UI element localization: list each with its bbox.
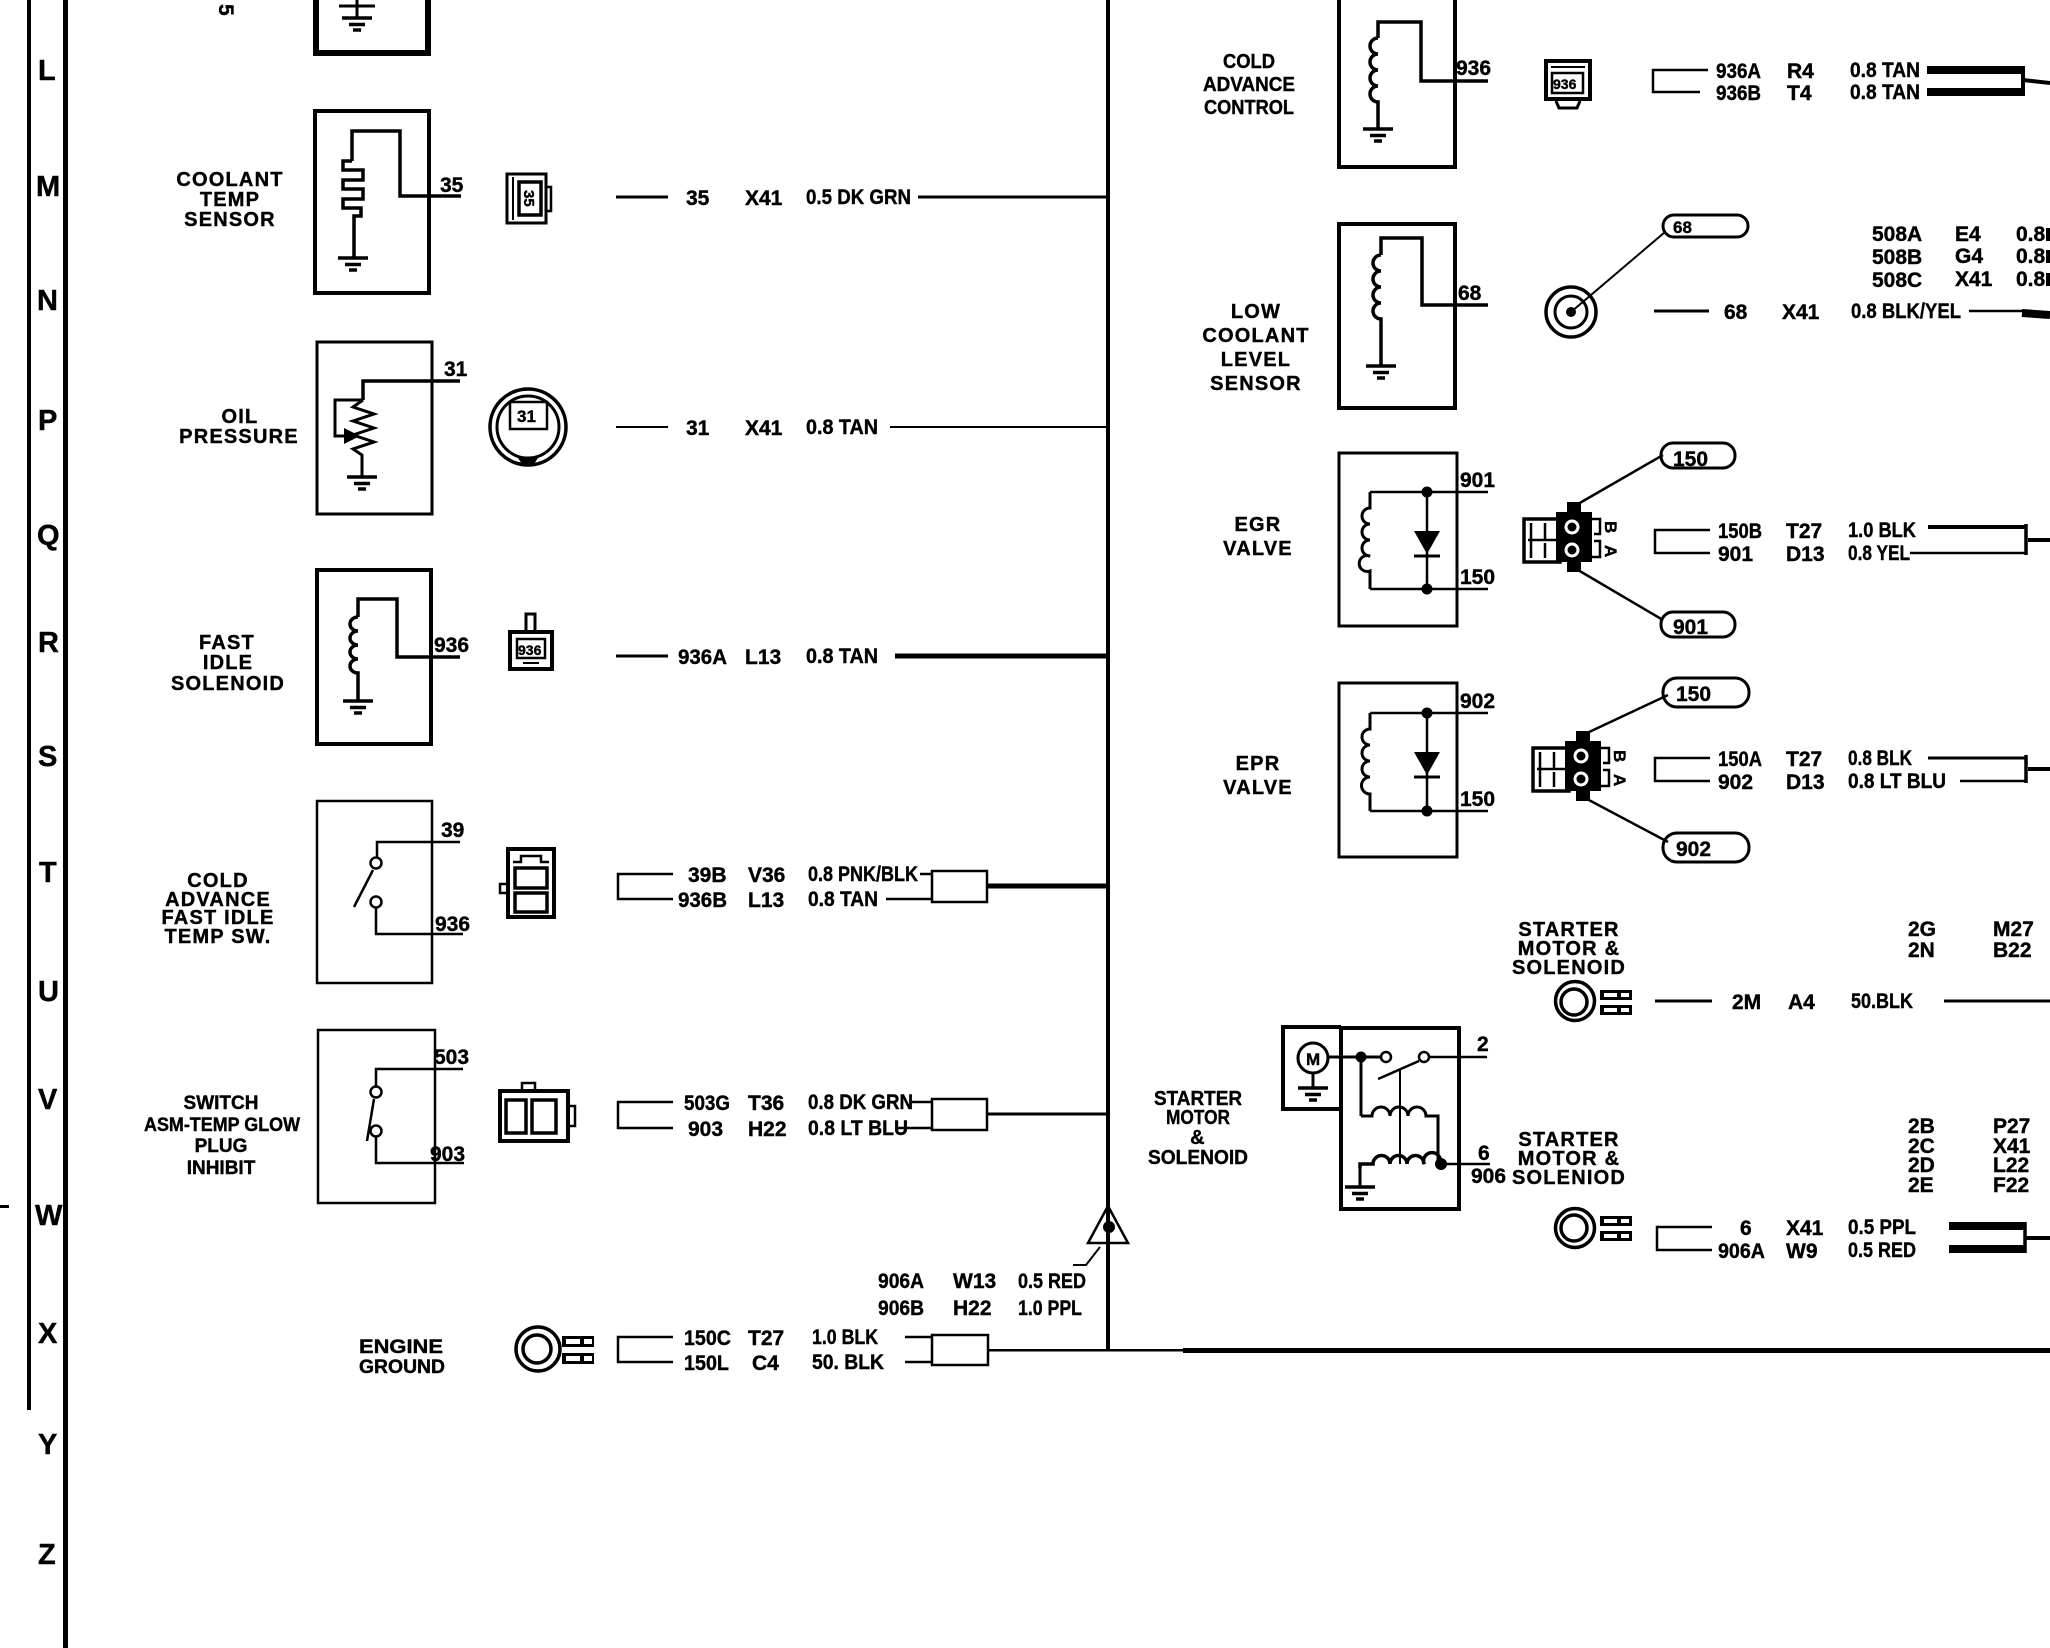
- svg-text:R4: R4: [1787, 60, 1814, 83]
- component box oil pressure: [317, 342, 432, 514]
- svg-text:SWITCH: SWITCH: [184, 1093, 259, 1114]
- wire merged exit to edge: [2023, 80, 2050, 83]
- svg-text:W: W: [35, 1200, 63, 1232]
- svg-text:508A: 508A: [1872, 223, 1922, 246]
- svg-text:PRESSURE: PRESSURE: [179, 426, 299, 448]
- EPR top rail to pin 902: [1370, 712, 1488, 715]
- component box EPR valve: [1339, 683, 1457, 857]
- wire 903 lead: [898, 1127, 932, 1130]
- ring terminal engine ground ring: [516, 1327, 560, 1371]
- svg-text:936B: 936B: [1716, 82, 1761, 105]
- EPR connector bottom tab: [1576, 791, 1590, 801]
- svg-text:SENSOR: SENSOR: [184, 209, 276, 231]
- svg-text:0.8 DK GRN: 0.8 DK GRN: [808, 1091, 913, 1114]
- svg-text:508B: 508B: [1872, 246, 1922, 269]
- wire 6 highlighted run: [1949, 1222, 2024, 1230]
- EPR connector round half: [1565, 741, 1601, 791]
- svg-text:906A: 906A: [878, 1270, 924, 1293]
- svg-text:X: X: [38, 1318, 58, 1350]
- wiper arrowhead: [344, 428, 360, 444]
- wiper arm with arrow: [335, 400, 363, 436]
- ring terminal 6 crimp: [1600, 1216, 1632, 1241]
- wire 906A highlighted run: [1949, 1245, 2024, 1253]
- svg-text:R: R: [38, 627, 59, 659]
- switch blade: [354, 870, 373, 907]
- ground oil pressure: [347, 477, 377, 489]
- svg-text:50.BLK: 50.BLK: [1851, 990, 1913, 1013]
- svg-text:0.5 PPL: 0.5 PPL: [1848, 1216, 1916, 1239]
- splice box 503G/903: [932, 1099, 987, 1130]
- svg-text:0.8 BLK: 0.8 BLK: [1848, 747, 1912, 770]
- EGR leader to pill 150: [1578, 455, 1663, 504]
- svg-text:B22: B22: [1993, 939, 2032, 962]
- grid border line left outer: [27, 0, 31, 1410]
- svg-text:SOLENOID: SOLENOID: [1512, 957, 1626, 979]
- ref list cut text sliver row2: [2046, 250, 2050, 263]
- svg-text:906B: 906B: [878, 1297, 924, 1320]
- EPR connector top tab: [1576, 731, 1590, 741]
- svg-text:0.8 BLK/YEL: 0.8 BLK/YEL: [1851, 300, 1961, 323]
- svg-text:150: 150: [1676, 683, 1711, 706]
- main bus horizontal wire thin part: [988, 1349, 1184, 1352]
- svg-text:M: M: [36, 171, 60, 203]
- svg-text:936: 936: [518, 642, 542, 658]
- wire from sender to pin 31: [363, 381, 460, 400]
- svg-text:2: 2: [1477, 1033, 1489, 1056]
- wire to pin 903: [376, 1137, 464, 1163]
- connector C936b top slot: [1551, 66, 1585, 68]
- svg-text:936A: 936A: [1716, 60, 1761, 83]
- svg-text:936: 936: [1553, 76, 1577, 92]
- ground coolant temp sensor: [338, 258, 368, 270]
- svg-text:SOLENIOD: SOLENIOD: [1512, 1167, 1626, 1189]
- svg-text:902: 902: [1676, 838, 1711, 861]
- component box fast idle solenoid: [317, 570, 431, 744]
- wire merge bracket 936A/936B: [2021, 66, 2025, 96]
- wire from coil to pin 936: [358, 599, 460, 657]
- ref list cut text sliver row3: [2046, 273, 2050, 286]
- wire 503G lead: [912, 1101, 932, 1104]
- svg-text:P: P: [38, 405, 57, 437]
- bracket 936A/936B: [1653, 70, 1708, 92]
- splice box 150C/150L: [932, 1335, 988, 1365]
- connector C39 top notch: [513, 856, 549, 862]
- svg-text:0.8 TAN: 0.8 TAN: [1850, 81, 1920, 104]
- svg-text:L: L: [38, 55, 56, 87]
- solenoid coil cold advance: [1370, 38, 1378, 128]
- EGR diode bar: [1414, 555, 1440, 558]
- svg-text:D13: D13: [1786, 543, 1825, 566]
- wire to pin 936: [376, 908, 463, 934]
- wire 2M run: [1944, 1000, 2050, 1003]
- junction dot coil2: [1435, 1158, 1447, 1170]
- svg-text:31: 31: [517, 407, 536, 426]
- svg-text:936: 936: [435, 913, 470, 936]
- svg-text:E4: E4: [1955, 223, 1981, 246]
- ring terminal 6 hole: [1561, 1215, 1587, 1241]
- svg-text:68: 68: [1724, 301, 1748, 324]
- pill 902 (EPR): [1663, 833, 1749, 862]
- wire stub row 31: [616, 426, 668, 428]
- svg-text:V: V: [38, 1084, 58, 1116]
- bracket 150C/150L: [618, 1337, 673, 1362]
- svg-text:X41: X41: [1955, 268, 1993, 291]
- svg-text:L13: L13: [745, 646, 781, 669]
- wire 936B lead: [886, 898, 932, 901]
- svg-text:68: 68: [1458, 282, 1482, 305]
- svg-text:V36: V36: [748, 864, 785, 887]
- svg-text:SOLENOID: SOLENOID: [171, 673, 285, 695]
- solenoid contact right: [1419, 1052, 1429, 1062]
- svg-text:50. BLK: 50. BLK: [812, 1351, 884, 1374]
- connector C35 inner cavity: [519, 182, 541, 215]
- svg-text:VALVE: VALVE: [1223, 777, 1293, 799]
- ring terminal engine ground hole: [523, 1335, 551, 1363]
- wire from resistor to pin 35: [352, 131, 461, 196]
- wire 68 highlighted end: [2022, 313, 2050, 315]
- connector C936 top tab: [526, 614, 535, 632]
- left edge tick: [0, 1205, 9, 1208]
- svg-text:&: &: [1190, 1127, 1206, 1149]
- svg-text:T: T: [39, 857, 57, 889]
- svg-text:31: 31: [686, 417, 710, 440]
- svg-text:0.8: 0.8: [2016, 245, 2046, 268]
- EGR bottom rail to pin 150: [1370, 588, 1488, 591]
- connector C936 body: [510, 632, 552, 669]
- svg-text:X41: X41: [745, 417, 783, 440]
- svg-text:Q: Q: [37, 520, 60, 552]
- svg-text:S: S: [38, 741, 57, 773]
- svg-text:5: 5: [214, 4, 237, 16]
- svg-text:150B: 150B: [1718, 520, 1762, 543]
- EGR connector bottom tab: [1567, 562, 1581, 572]
- svg-text:508C: 508C: [1872, 269, 1922, 292]
- EPR leader to pill 150: [1587, 695, 1668, 733]
- svg-text:INHIBIT: INHIBIT: [187, 1158, 256, 1179]
- svg-text:150C: 150C: [684, 1327, 731, 1350]
- svg-text:A: A: [1610, 774, 1629, 786]
- component box EGR valve: [1339, 453, 1457, 626]
- wire to pin 39: [377, 842, 460, 857]
- svg-text:ASM-TEMP GLOW: ASM-TEMP GLOW: [144, 1115, 300, 1136]
- ground fast idle solenoid: [343, 701, 373, 713]
- EGR connector pin B hole: [1566, 521, 1578, 533]
- svg-text:B: B: [1601, 521, 1620, 533]
- EPR junction dot bottom: [1422, 806, 1433, 817]
- pill 68: [1663, 215, 1748, 237]
- coil2 ground stem: [1359, 1166, 1362, 1186]
- svg-text:906A: 906A: [1718, 1240, 1765, 1263]
- ground in top box: [339, 0, 375, 18]
- svg-text:COLD: COLD: [1223, 51, 1275, 73]
- switch contact top (503): [371, 1087, 382, 1098]
- connector C503 right cavity: [532, 1100, 556, 1133]
- splice leader line: [1073, 1247, 1100, 1265]
- solenoid blade: [1378, 1061, 1419, 1079]
- EPR connector pin B hole: [1575, 750, 1587, 762]
- svg-text:902: 902: [1718, 771, 1753, 794]
- EGR connector pin A hole: [1566, 544, 1578, 556]
- component box cold advance control: [1339, 0, 1455, 167]
- main bus horizontal wire thick part: [1183, 1348, 2050, 1353]
- sensor coil low coolant: [1373, 255, 1381, 365]
- svg-text:X41: X41: [1782, 301, 1820, 324]
- svg-text:2N: 2N: [1908, 939, 1935, 962]
- svg-text:150: 150: [1460, 566, 1495, 589]
- svg-text:L13: L13: [748, 889, 784, 912]
- svg-text:EGR: EGR: [1235, 514, 1282, 536]
- svg-text:PLUG: PLUG: [195, 1136, 248, 1157]
- EGR connector right latch: [1592, 519, 1600, 557]
- solenoid coil 1: [1361, 1107, 1438, 1164]
- starter motor sub-box: [1283, 1027, 1341, 1109]
- svg-text:A: A: [1601, 545, 1620, 557]
- connector C39 upper cavity: [515, 868, 547, 888]
- EGR junction dot bottom: [1422, 584, 1433, 595]
- switch contact bottom (936): [371, 897, 382, 908]
- svg-text:FAST: FAST: [199, 632, 255, 654]
- svg-text:902: 902: [1460, 690, 1495, 713]
- svg-text:D13: D13: [1786, 771, 1825, 794]
- svg-text:150A: 150A: [1718, 748, 1762, 771]
- svg-text:0.5 RED: 0.5 RED: [1018, 1270, 1086, 1293]
- splice box 39B/936B: [932, 871, 987, 902]
- connector C35 right tab: [546, 187, 551, 211]
- svg-text:CONTROL: CONTROL: [1204, 97, 1294, 119]
- EGR junction dot top: [1422, 487, 1433, 498]
- wire merge bracket 150A/902: [2024, 755, 2028, 783]
- wire stub row 35: [616, 196, 668, 199]
- wire 31 to bus: [890, 426, 1108, 428]
- svg-text:150L: 150L: [684, 1352, 729, 1375]
- svg-text:T27: T27: [748, 1327, 784, 1350]
- probe leader to pill 68: [1571, 232, 1665, 312]
- grid border line left inner: [63, 0, 68, 1648]
- svg-text:0.8 LT BLU: 0.8 LT BLU: [1848, 770, 1946, 793]
- starter main box: [1341, 1028, 1459, 1209]
- svg-text:1.0 BLK: 1.0 BLK: [812, 1326, 878, 1349]
- svg-text:503: 503: [434, 1046, 469, 1069]
- solenoid contact left: [1381, 1052, 1391, 1062]
- component box low coolant level sensor: [1339, 224, 1455, 408]
- svg-text:SOLENOID: SOLENOID: [1148, 1147, 1248, 1169]
- svg-text:0.8 TAN: 0.8 TAN: [806, 416, 878, 439]
- EGR connector round half: [1556, 512, 1592, 562]
- solenoid coil fast idle: [350, 617, 358, 700]
- probe icon center dot: [1566, 307, 1576, 317]
- svg-text:B: B: [1610, 750, 1629, 762]
- EPR connector pin A hole: [1575, 773, 1587, 785]
- EPR diode line: [1426, 713, 1429, 811]
- resistor element (square zigzag): [343, 161, 363, 257]
- component box cold advance temp switch: [317, 801, 432, 983]
- ref list cut text sliver row1: [2046, 228, 2050, 241]
- EPR connector right latch: [1601, 748, 1609, 786]
- svg-text:68: 68: [1673, 218, 1692, 237]
- svg-text:2E: 2E: [1908, 1174, 1934, 1197]
- EPR connector grid half: [1533, 748, 1569, 791]
- svg-text:M: M: [1306, 1050, 1320, 1069]
- svg-text:0.8 TAN: 0.8 TAN: [1850, 59, 1920, 82]
- svg-text:35: 35: [686, 187, 710, 210]
- svg-text:TEMP SW.: TEMP SW.: [164, 926, 271, 948]
- EPR diode triangle: [1414, 752, 1440, 775]
- main bus vertical wire: [1106, 0, 1110, 1350]
- bracket 503G/903: [618, 1102, 673, 1128]
- svg-text:H22: H22: [953, 1297, 992, 1320]
- pill 901 (EGR): [1661, 612, 1735, 637]
- wire to pin 503: [376, 1069, 463, 1086]
- svg-text:0.8 TAN: 0.8 TAN: [808, 888, 878, 911]
- EGR coil: [1359, 492, 1370, 589]
- connector C936 inner box: [517, 639, 545, 658]
- svg-text:N: N: [37, 285, 58, 317]
- svg-text:OIL: OIL: [222, 406, 259, 428]
- svg-text:39: 39: [441, 819, 464, 842]
- svg-text:906: 906: [1471, 1165, 1506, 1188]
- wire 902 run: [1960, 780, 2026, 783]
- svg-text:0.8: 0.8: [2016, 268, 2046, 291]
- svg-text:503G: 503G: [684, 1092, 730, 1115]
- wire stub row 2M: [1655, 1000, 1712, 1003]
- gauge icon 31 label box: [510, 402, 547, 429]
- switch contact bottom (903): [371, 1126, 382, 1137]
- svg-text:M27: M27: [1993, 918, 2034, 941]
- EGR connector top tab: [1567, 502, 1581, 512]
- pill 150 (EPR): [1663, 678, 1749, 707]
- svg-text:U: U: [38, 976, 59, 1008]
- pill 150 (EGR): [1661, 443, 1735, 468]
- probe icon middle circle: [1555, 296, 1587, 328]
- svg-text:ENGINE: ENGINE: [359, 1337, 443, 1358]
- svg-text:936B: 936B: [678, 889, 727, 912]
- svg-text:C4: C4: [752, 1352, 779, 1375]
- connector C503 body: [500, 1091, 568, 1141]
- svg-text:EPR: EPR: [1236, 753, 1281, 775]
- gauge icon 31 outer ring: [490, 389, 566, 465]
- svg-text:W13: W13: [953, 1270, 996, 1293]
- svg-text:X41: X41: [1786, 1217, 1824, 1240]
- wire from coil to pin 68: [1381, 238, 1488, 305]
- wire merged exit: [2026, 1236, 2050, 1240]
- svg-text:0.5 RED: 0.5 RED: [1848, 1239, 1916, 1262]
- svg-text:GROUND: GROUND: [359, 1357, 445, 1378]
- svg-text:SENSOR: SENSOR: [1210, 373, 1302, 395]
- connector C35 outer: [507, 174, 546, 223]
- ring terminal 2M crimp: [1600, 990, 1632, 1015]
- bracket 6/906A: [1657, 1227, 1712, 1250]
- wire 150A run: [1928, 757, 2026, 760]
- connector C35 inner latch line: [512, 177, 514, 220]
- svg-text:0.8 PNK/BLK: 0.8 PNK/BLK: [808, 863, 918, 886]
- bracket 39B/936B: [618, 874, 673, 899]
- EGR leader to pill 901: [1578, 570, 1663, 620]
- EPR bottom rail to pin 150: [1370, 810, 1488, 813]
- svg-text:VALVE: VALVE: [1223, 538, 1293, 560]
- wire to pin 2: [1429, 1056, 1487, 1059]
- EGR top rail to pin 901: [1370, 491, 1488, 494]
- bracket 150A/902: [1655, 758, 1710, 781]
- wire 68 run: [1969, 310, 2024, 313]
- EPR leader to pill 902: [1587, 799, 1668, 842]
- svg-text:ADVANCE: ADVANCE: [1203, 74, 1295, 96]
- svg-text:0.8 LT BLU: 0.8 LT BLU: [808, 1117, 908, 1140]
- svg-text:T27: T27: [1786, 520, 1822, 543]
- solenoid pull-in vertical: [1360, 1057, 1363, 1116]
- solenoid coil 2 (hold-in): [1360, 1153, 1443, 1168]
- svg-text:936A: 936A: [678, 646, 727, 669]
- svg-text:903: 903: [688, 1118, 723, 1141]
- wire 150C lead: [905, 1336, 932, 1339]
- svg-text:150: 150: [1673, 448, 1708, 471]
- connector C39 lower cavity: [515, 893, 547, 912]
- svg-text:0.8: 0.8: [2016, 223, 2046, 246]
- svg-text:0.8 YEL: 0.8 YEL: [1848, 542, 1910, 565]
- svg-text:G4: G4: [1955, 245, 1983, 268]
- wire 936A highlighted run: [1927, 66, 2023, 74]
- motor circle: [1298, 1043, 1328, 1073]
- svg-text:901: 901: [1673, 616, 1708, 639]
- ring terminal 2M hole: [1561, 989, 1587, 1015]
- svg-text:6: 6: [1478, 1142, 1490, 1165]
- connector C39 left tab: [500, 884, 508, 893]
- wire 936A to bus (thick): [895, 654, 1108, 659]
- svg-text:MOTOR: MOTOR: [1166, 1107, 1230, 1129]
- wire splice to bus: [987, 1113, 1108, 1116]
- wire splice to bus (thick): [987, 884, 1108, 889]
- svg-text:35: 35: [440, 174, 464, 197]
- wire 35 to bus: [918, 196, 1108, 199]
- ground low coolant sensor: [1366, 366, 1396, 378]
- EGR connector grid half: [1524, 519, 1560, 562]
- connector C936b bottom tab: [1556, 101, 1580, 108]
- ring terminal 2M ring: [1556, 982, 1595, 1021]
- connector C503 top tab: [522, 1083, 535, 1091]
- motor ground stem: [1312, 1073, 1315, 1087]
- wire merge bracket 150B/901: [2024, 524, 2028, 555]
- wire 901 run: [1910, 552, 2026, 555]
- coil2 ground: [1345, 1187, 1375, 1199]
- svg-text:0.5 DK GRN: 0.5 DK GRN: [806, 186, 911, 209]
- junction dot motor: [1356, 1052, 1367, 1063]
- wire from coil to pin 936: [1378, 22, 1488, 81]
- solenoid plunger line: [1399, 1070, 1401, 1164]
- wire 39B lead: [920, 873, 932, 876]
- EGR diode triangle: [1414, 531, 1440, 554]
- ring terminal 6 ring: [1556, 1209, 1595, 1248]
- svg-text:F22: F22: [1993, 1174, 2029, 1197]
- ground cold advance control: [1363, 129, 1393, 141]
- svg-text:6: 6: [1740, 1217, 1752, 1240]
- svg-text:35: 35: [520, 190, 537, 207]
- wire stub row 936A: [616, 655, 668, 658]
- connector C503 right notch: [568, 1106, 575, 1126]
- EPR coil: [1362, 713, 1371, 811]
- svg-text:2M: 2M: [1732, 991, 1761, 1014]
- top partial component box: [316, 0, 428, 53]
- bracket 150B/901: [1655, 530, 1710, 553]
- gauge icon bottom tab: [518, 458, 538, 464]
- connector C936b inner box: [1552, 73, 1583, 93]
- connector C39 body: [508, 849, 554, 917]
- svg-text:0.8 TAN: 0.8 TAN: [806, 645, 878, 668]
- svg-text:LEVEL: LEVEL: [1221, 349, 1291, 371]
- svg-text:T36: T36: [748, 1092, 784, 1115]
- svg-text:LOW: LOW: [1231, 301, 1281, 323]
- wire motor to solenoid junction: [1328, 1056, 1380, 1059]
- svg-text:Z: Z: [38, 1539, 56, 1571]
- svg-text:TEMP: TEMP: [200, 189, 260, 211]
